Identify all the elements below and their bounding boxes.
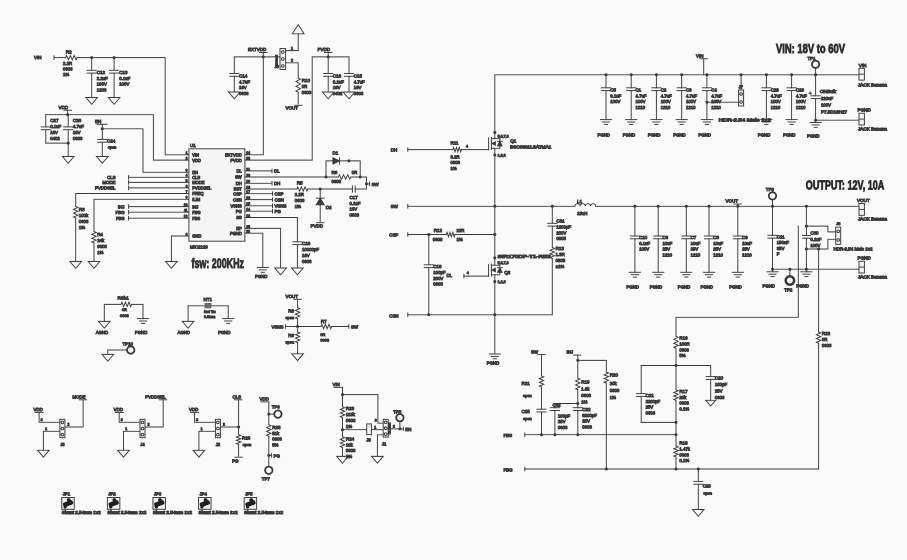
capacitor C19 xyxy=(424,235,446,315)
svg-text:16V: 16V xyxy=(302,253,310,258)
capacitor C30 xyxy=(802,226,821,249)
svg-text:J7: J7 xyxy=(739,84,744,89)
junction EN xyxy=(101,127,104,130)
ground RSh1 AGND xyxy=(96,321,110,335)
svg-text:4: 4 xyxy=(186,174,188,178)
svg-text:PGND: PGND xyxy=(783,133,795,138)
wire BST pin to R5 xyxy=(245,188,297,190)
svg-text:Q2: Q2 xyxy=(504,270,511,275)
port SW boot xyxy=(366,182,379,187)
svg-text:0603: 0603 xyxy=(302,259,312,264)
svg-text:R3: R3 xyxy=(79,207,85,212)
svg-text:PVDDSEL: PVDDSEL xyxy=(192,186,212,191)
svg-text:1%: 1% xyxy=(295,204,301,209)
svg-text:PGND: PGND xyxy=(135,330,147,335)
junction C26 bottom xyxy=(67,142,70,145)
port PG at U1 xyxy=(245,209,282,214)
wire R26 to PG label xyxy=(238,445,240,457)
svg-text:SW: SW xyxy=(351,325,359,330)
svg-text:16V: 16V xyxy=(354,85,362,90)
svg-text:C29: C29 xyxy=(796,88,805,93)
port CSP at U1 xyxy=(245,191,284,196)
wire SW bus to Q2 drain xyxy=(494,206,496,265)
svg-text:AGND: AGND xyxy=(96,330,108,335)
svg-text:2.2uF: 2.2uF xyxy=(97,76,108,81)
svg-text:DL: DL xyxy=(236,169,242,174)
testpoint TP6 xyxy=(269,404,282,418)
connector J2 xyxy=(215,419,220,447)
wire RSh1 right to PGND xyxy=(142,304,144,318)
connector J3 xyxy=(60,419,65,447)
capacitor C24 xyxy=(98,129,117,157)
ground C4 xyxy=(698,120,712,138)
svg-text:JP5: JP5 xyxy=(245,492,253,497)
svg-text:100R: 100R xyxy=(679,342,689,347)
svg-text:PGND: PGND xyxy=(626,284,638,289)
svg-text:16V: 16V xyxy=(350,207,358,212)
port DH at U1 xyxy=(245,181,280,186)
wire C27 bottom to C26 bottom xyxy=(46,142,68,144)
svg-text:open: open xyxy=(285,339,294,344)
svg-text:0603: 0603 xyxy=(346,418,356,423)
svg-text:4.7uF: 4.7uF xyxy=(636,93,647,98)
ground C28 xyxy=(758,120,772,138)
svg-text:F: F xyxy=(777,252,780,257)
svg-text:2: 2 xyxy=(393,424,395,428)
wire FBG sense to R22 xyxy=(818,249,820,332)
svg-text:MIC2129: MIC2129 xyxy=(190,244,208,249)
svg-text:100V: 100V xyxy=(639,247,649,252)
junction D1 left xyxy=(325,176,328,179)
port CSN to sense xyxy=(389,313,495,318)
svg-text:SW: SW xyxy=(235,175,242,180)
ground C16 xyxy=(322,92,334,99)
wire J3 pin1 to ground xyxy=(43,427,60,451)
svg-text:28k: 28k xyxy=(679,395,687,400)
svg-text:100pF: 100pF xyxy=(558,413,571,418)
svg-text:25V: 25V xyxy=(713,247,721,252)
svg-text:3: 3 xyxy=(375,419,377,423)
svg-text:VDD: VDD xyxy=(114,407,123,412)
svg-text:MODE: MODE xyxy=(102,180,115,185)
svg-text:PVDDSEL: PVDDSEL xyxy=(145,394,166,399)
svg-text:VOUT: VOUT xyxy=(286,294,299,299)
svg-text:FREQ: FREQ xyxy=(192,191,203,196)
svg-text:0603: 0603 xyxy=(120,313,129,318)
svg-text:C22: C22 xyxy=(582,407,591,412)
junction EN TP5 xyxy=(398,427,401,430)
svg-text:open: open xyxy=(523,416,532,421)
svg-text:R19: R19 xyxy=(581,379,590,384)
inductor L1 xyxy=(575,199,596,216)
svg-text:CSP: CSP xyxy=(389,233,398,238)
svg-text:VSNS: VSNS xyxy=(275,204,287,209)
net MODE stub xyxy=(102,180,189,185)
svg-text:PGND: PGND xyxy=(701,284,713,289)
op-amp U1 MIC2129 controller xyxy=(184,143,250,249)
svg-text:115k: 115k xyxy=(346,412,356,417)
wire R20 to FBG bus xyxy=(605,383,607,469)
ground C1 xyxy=(623,120,637,138)
resistor R5 xyxy=(295,180,308,208)
svg-text:0R: 0R xyxy=(352,170,358,175)
net VIN bus label xyxy=(696,54,707,75)
junction C30 ground xyxy=(805,268,808,271)
capacitor C28 xyxy=(762,75,782,120)
svg-text:JP1: JP1 xyxy=(63,492,71,497)
svg-text:FBS: FBS xyxy=(116,216,125,221)
svg-text:C19: C19 xyxy=(433,264,442,269)
svg-text:5,6,7,8: 5,6,7,8 xyxy=(498,135,509,139)
transistor Q2 xyxy=(489,254,552,284)
svg-text:10: 10 xyxy=(184,203,188,207)
resistor R25 xyxy=(267,414,283,447)
resistor R4 xyxy=(92,232,108,256)
svg-text:25V: 25V xyxy=(663,247,671,252)
wire U1 GND pin to ground xyxy=(171,236,189,262)
svg-text:TP7: TP7 xyxy=(262,477,271,482)
svg-text:0603: 0603 xyxy=(97,244,107,249)
wire J6 top branch xyxy=(806,226,835,232)
svg-text:100V: 100V xyxy=(119,82,129,87)
net FBG bus xyxy=(504,467,819,472)
net FBS bus xyxy=(504,433,677,438)
junction C1 xyxy=(630,73,633,76)
ground C5 xyxy=(598,120,612,138)
junction EXTVDD xyxy=(262,55,265,58)
junction Q1 source xyxy=(493,154,496,157)
wire SS pin to C18 xyxy=(245,218,298,242)
svg-text:0.1uF: 0.1uF xyxy=(333,79,344,84)
junction TP6 xyxy=(267,413,270,416)
svg-text:TP2: TP2 xyxy=(784,287,793,292)
wire FBS sense from VOUT xyxy=(676,226,798,336)
svg-text:25V: 25V xyxy=(691,247,699,252)
port EN xyxy=(400,427,412,432)
resistor R9 xyxy=(285,327,299,345)
resistor R18 xyxy=(674,435,691,469)
wire R13 to CSN rail xyxy=(495,259,553,315)
wire VIN to R2 xyxy=(54,57,66,59)
svg-text:0.1uF: 0.1uF xyxy=(610,93,621,98)
svg-text:20k: 20k xyxy=(610,381,618,386)
wire C30 bottom to PGND bus xyxy=(805,249,807,269)
svg-text:BSC0801LSATMA1: BSC0801LSATMA1 xyxy=(510,144,552,149)
wire VIN bus xyxy=(495,74,859,76)
svg-text:PGND: PGND xyxy=(858,256,872,261)
wire ILIM to R4 xyxy=(94,199,189,231)
svg-text:8200pF: 8200pF xyxy=(582,413,597,418)
connector JP2 shunt xyxy=(107,492,147,515)
svg-text:JACK Banana: JACK Banana xyxy=(858,127,888,132)
connector JP1 shunt xyxy=(61,492,101,515)
wire R10 to VOUT label xyxy=(297,92,299,104)
junction SW Q1/Q2 xyxy=(493,205,496,208)
wire VOUT bus xyxy=(596,205,859,207)
wire J4 pin2 to PVDDSEL xyxy=(145,400,163,427)
svg-text:1210: 1210 xyxy=(713,253,723,258)
svg-text:TP6: TP6 xyxy=(272,404,281,409)
net VOUT bus label xyxy=(726,199,742,207)
net VDD xyxy=(59,105,72,115)
svg-text:1210: 1210 xyxy=(742,253,752,258)
svg-text:J3: J3 xyxy=(60,442,65,447)
ground J2 xyxy=(193,450,205,457)
ground C3 xyxy=(673,120,687,138)
capacitor C32 xyxy=(550,403,570,435)
capacitor C7 xyxy=(682,206,701,272)
net VOUT at R10 xyxy=(286,105,303,110)
svg-text:INJ: INJ xyxy=(192,204,198,209)
resistor R20 xyxy=(604,372,620,400)
svg-text:0603: 0603 xyxy=(350,212,360,217)
ground NT1 PGND xyxy=(218,319,234,335)
wire INJ to R20 xyxy=(578,360,607,372)
capacitor C11 xyxy=(768,206,789,269)
net VDD at R25 xyxy=(260,397,270,414)
svg-text:1%: 1% xyxy=(457,237,463,242)
svg-text:VIN: VIN xyxy=(192,153,199,158)
svg-text:AGND: AGND xyxy=(178,330,190,335)
ground J1 xyxy=(372,456,384,463)
net INJ at R19 xyxy=(567,350,581,361)
svg-text:C3: C3 xyxy=(686,88,692,93)
svg-text:Shunt 2.54mm 1x2: Shunt 2.54mm 1x2 xyxy=(107,510,147,515)
junction INJ node xyxy=(576,359,579,362)
svg-text:4.7uF: 4.7uF xyxy=(354,79,365,84)
svg-text:1%: 1% xyxy=(79,225,85,230)
wire J8 to J1 pin1 xyxy=(371,425,383,429)
svg-text:24k: 24k xyxy=(97,238,105,243)
svg-text:C8: C8 xyxy=(713,235,719,240)
svg-text:FBS: FBS xyxy=(192,216,200,221)
svg-text:JP4: JP4 xyxy=(200,492,208,497)
ground C2 xyxy=(648,120,662,138)
svg-text:1,2,3: 1,2,3 xyxy=(498,154,506,158)
svg-text:0R: 0R xyxy=(822,337,828,342)
wire divider mid to J8 xyxy=(343,429,367,431)
connector J7 xyxy=(719,75,772,123)
wire R11 to Q1 gate xyxy=(461,145,488,150)
svg-text:EN: EN xyxy=(405,427,411,432)
svg-text:Net Tie: Net Tie xyxy=(204,310,216,314)
svg-text:R4: R4 xyxy=(97,232,103,237)
wire C32 link xyxy=(555,403,578,405)
svg-text:VDD: VDD xyxy=(192,158,201,163)
svg-text:10uF: 10uF xyxy=(742,241,752,246)
net VDD at J3 xyxy=(34,407,44,412)
svg-text:PGND: PGND xyxy=(650,284,662,289)
junction FBS R18 xyxy=(675,433,678,436)
resistor R16 xyxy=(674,336,690,359)
net FBG stub xyxy=(115,210,188,215)
junction CLS R26 xyxy=(237,426,240,429)
svg-text:9: 9 xyxy=(186,196,188,200)
svg-text:25V: 25V xyxy=(646,405,654,410)
ground RSh1 PGND xyxy=(135,319,149,335)
resistor RSh1 xyxy=(104,296,143,318)
capacitor C3 xyxy=(677,75,697,120)
ground J3 xyxy=(38,450,50,457)
ground R24 xyxy=(337,456,349,463)
svg-text:0603: 0603 xyxy=(451,160,461,165)
svg-text:1: 1 xyxy=(201,427,203,431)
svg-text:Shunt 2.54mm 1x2: Shunt 2.54mm 1x2 xyxy=(244,510,284,515)
capacitor C4 xyxy=(702,75,722,120)
resistor R3 xyxy=(74,207,90,231)
svg-text:5%: 5% xyxy=(679,353,685,358)
svg-text:0603: 0603 xyxy=(346,448,356,453)
svg-text:0603: 0603 xyxy=(822,343,832,348)
svg-text:VSNS: VSNS xyxy=(272,325,284,330)
svg-text:PGND: PGND xyxy=(648,133,660,138)
ground C15 xyxy=(343,92,355,99)
wire R4 to ground xyxy=(93,243,95,262)
svg-text:2: 2 xyxy=(223,423,225,427)
svg-text:R23: R23 xyxy=(346,406,355,411)
junction Q1 drain xyxy=(493,131,496,134)
svg-text:1%: 1% xyxy=(97,250,103,255)
svg-text:1%: 1% xyxy=(610,395,616,400)
capacitor C25 xyxy=(522,409,547,435)
junction D1 cathode xyxy=(347,159,350,162)
svg-text:0603: 0603 xyxy=(581,393,591,398)
ground Q2 PGND xyxy=(487,354,501,366)
svg-text:CSP: CSP xyxy=(275,191,284,196)
svg-text:R22: R22 xyxy=(822,331,831,336)
resistor R6 xyxy=(332,170,358,184)
svg-text:4.7uF: 4.7uF xyxy=(796,93,807,98)
svg-text:100V: 100V xyxy=(821,103,831,108)
svg-text:VIN: VIN xyxy=(333,382,340,387)
svg-text:VIN: VIN xyxy=(696,54,704,59)
junction divider mid xyxy=(341,428,344,431)
junction SW port xyxy=(365,182,368,185)
svg-text:C21: C21 xyxy=(646,393,655,398)
resistor R24 xyxy=(340,418,356,459)
svg-text:fsw: 200KHz: fsw: 200KHz xyxy=(192,255,245,271)
capacitor C14 xyxy=(230,57,251,96)
svg-text:1210: 1210 xyxy=(796,105,806,110)
svg-text:C11: C11 xyxy=(777,234,785,239)
capacitor C22 xyxy=(573,407,597,435)
svg-text:0805: 0805 xyxy=(556,236,566,241)
svg-text:0603: 0603 xyxy=(302,90,312,95)
junction D1 right xyxy=(359,176,362,179)
net tie NT1 xyxy=(188,297,228,319)
transistor Q1 xyxy=(489,135,552,158)
testpoint TP1 xyxy=(808,56,820,75)
svg-text:0.5mm: 0.5mm xyxy=(204,315,215,319)
resistor R23 xyxy=(340,395,356,429)
ground C10 xyxy=(626,272,640,289)
svg-text:PGND: PGND xyxy=(758,133,770,138)
wire NT1 left to AGND xyxy=(187,306,189,322)
svg-text:J4: J4 xyxy=(140,442,145,447)
capacitor C27 xyxy=(41,115,61,143)
svg-text:R25: R25 xyxy=(272,425,281,430)
svg-text:R18: R18 xyxy=(679,441,688,446)
wire Q1 source to SW bus xyxy=(494,148,496,206)
svg-text:PG: PG xyxy=(274,454,281,459)
svg-text:C26: C26 xyxy=(73,118,82,123)
svg-text:1: 1 xyxy=(186,151,188,155)
wire R24 to ground xyxy=(342,448,344,457)
capacitor C26 xyxy=(64,115,85,143)
svg-text:0603: 0603 xyxy=(610,388,620,393)
svg-text:C4: C4 xyxy=(711,88,717,93)
svg-text:R5: R5 xyxy=(297,180,303,185)
junction C19 bottom xyxy=(427,313,430,316)
svg-text:150uF: 150uF xyxy=(777,240,790,245)
net PVDDSEL stub xyxy=(95,186,189,191)
svg-text:VDD: VDD xyxy=(59,105,69,110)
svg-text:C12: C12 xyxy=(97,70,106,75)
svg-text:FBG: FBG xyxy=(504,467,514,472)
connector J6 xyxy=(834,221,874,252)
svg-text:OUTPUT: 12V, 10A: OUTPUT: 12V, 10A xyxy=(806,178,885,193)
svg-text:PVDD: PVDD xyxy=(311,224,324,229)
ground C24 xyxy=(97,157,109,164)
junction R21 FBS xyxy=(540,433,543,436)
svg-text:2.2R: 2.2R xyxy=(63,61,72,66)
ground C12 xyxy=(86,98,98,105)
svg-text:1210: 1210 xyxy=(663,253,673,258)
svg-text:JP3: JP3 xyxy=(154,492,162,497)
svg-text:12: 12 xyxy=(184,215,188,219)
svg-text:1206: 1206 xyxy=(97,87,107,92)
connector VOUT jack xyxy=(857,198,888,222)
svg-text:1.47k: 1.47k xyxy=(679,447,690,452)
capacitor C9 xyxy=(733,206,752,272)
wire D2 to PVDD label xyxy=(319,205,321,222)
junction FBG sense xyxy=(817,248,820,251)
net PVDDSEL at J4 xyxy=(145,394,166,400)
svg-text:1210: 1210 xyxy=(661,105,671,110)
svg-text:C25: C25 xyxy=(522,409,531,414)
port SW at R7 xyxy=(349,325,359,330)
svg-text:35V: 35V xyxy=(777,246,785,251)
port VSNS at U1 xyxy=(245,204,287,209)
svg-text:D2: D2 xyxy=(326,205,332,210)
svg-text:25V: 25V xyxy=(715,389,723,394)
junction C22 FBS xyxy=(576,433,579,436)
svg-text:D1: D1 xyxy=(333,150,339,155)
wire R22 to FBG bus xyxy=(818,343,820,469)
wire R6 to SW port corner xyxy=(351,177,367,189)
wire PGND pin to ground xyxy=(245,233,263,267)
ground C18 xyxy=(292,268,304,275)
ground C6 xyxy=(650,272,664,289)
svg-text:CSN: CSN xyxy=(275,197,284,202)
ground C8 xyxy=(701,272,715,289)
svg-text:0603: 0603 xyxy=(558,425,568,430)
svg-text:3: 3 xyxy=(291,59,293,63)
junction VIN divider xyxy=(341,393,344,396)
svg-text:R17: R17 xyxy=(679,389,688,394)
connector J8 xyxy=(366,424,371,443)
svg-text:1210: 1210 xyxy=(771,105,781,110)
svg-text:VOUT: VOUT xyxy=(857,198,870,203)
resistor R19 xyxy=(576,360,592,404)
capacitor CINBulk xyxy=(809,75,848,120)
wire J3 pin2 to MODE xyxy=(65,400,83,427)
svg-text:0603: 0603 xyxy=(679,347,689,352)
svg-text:GND: GND xyxy=(192,234,201,239)
wire PGND output bus xyxy=(773,268,859,270)
svg-text:VDD: VDD xyxy=(34,407,43,412)
svg-text:DH: DH xyxy=(236,181,242,186)
